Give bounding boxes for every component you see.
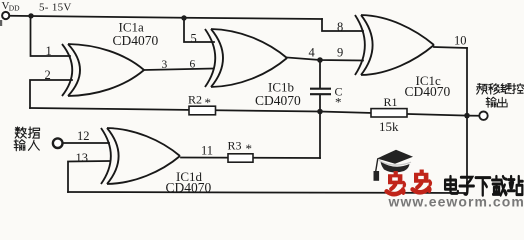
svg-text:CD4070: CD4070 (113, 33, 159, 48)
wire pin 4 to pin 9 (287, 58, 363, 61)
junction dot at Vdd/pin5 (181, 15, 186, 20)
svg-text:11: 11 (201, 144, 213, 158)
wire R2/R1 horizontal rail (30, 108, 467, 116)
terminal Vdd (2, 12, 9, 19)
XOR gate U1b (IC1b CD4070) (205, 29, 287, 87)
logo cap tassel (376, 159, 378, 173)
svg-text:1: 1 (46, 44, 52, 58)
resistor R1 (371, 109, 407, 117)
label FSK output (频移键控) (477, 84, 488, 95)
svg-text:12: 12 (77, 129, 90, 143)
wire top Vdd rail (9, 16, 322, 19)
terminal FSK output (479, 112, 487, 120)
logo cap base (381, 162, 410, 173)
svg-text:DD: DD (9, 3, 20, 12)
wire pin 12 from input terminal (63, 142, 110, 144)
svg-text:9: 9 (337, 46, 343, 60)
wire Vdd drop to pin 5 (184, 18, 214, 42)
resistor R3 (228, 154, 253, 162)
wire output terminal stub (467, 115, 479, 117)
svg-text:5: 5 (191, 32, 197, 46)
svg-text:R3: R3 (228, 139, 242, 153)
wire pin 13 (68, 161, 109, 192)
svg-text:CD4070: CD4070 (255, 93, 301, 108)
wire top rail step down to pin 8 (322, 19, 363, 31)
svg-text:*: * (335, 95, 342, 110)
svg-text:5- 15V: 5- 15V (39, 1, 72, 13)
terminal data input (53, 138, 63, 148)
svg-text:3: 3 (162, 59, 168, 71)
svg-text:www.eeworm.com: www.eeworm.com (388, 194, 524, 208)
wire Vdd drop to pin 1 (31, 16, 71, 56)
label data input (数据) (15, 127, 26, 138)
XOR gate U1a (IC1a CD4070) (62, 44, 144, 96)
wire pin 2 with drop to R2 rail (30, 80, 72, 108)
svg-text:R2: R2 (188, 93, 202, 107)
scan artifact left edge mark (0, 20, 2, 26)
wire bottom feedback (68, 192, 467, 193)
logo cap highlight stripe (379, 160, 411, 165)
svg-text:2: 2 (45, 68, 51, 82)
junction output node (464, 113, 470, 119)
svg-text:8: 8 (337, 20, 343, 34)
label data input (输入) (14, 140, 25, 151)
label FSK output (输出) (486, 97, 496, 107)
logo text 电子下载站 (445, 176, 458, 193)
svg-text:15k: 15k (379, 119, 399, 134)
wire node 4 down to capacitor (319, 60, 321, 88)
svg-text:R1: R1 (384, 95, 398, 109)
svg-text:6: 6 (190, 59, 196, 71)
wire output vertical (466, 48, 468, 193)
wire pin 11 through R3 to vertical (181, 157, 320, 160)
XOR gate U1c (IC1c CD4070) (355, 15, 434, 75)
svg-text:4: 4 (309, 46, 316, 60)
capacitor C plates (310, 89, 331, 95)
logo graduation cap board (377, 150, 413, 164)
svg-text:CD4070: CD4070 (405, 84, 451, 99)
svg-text:10: 10 (454, 34, 467, 48)
wire pin 3 to pin 6 (144, 69, 213, 71)
svg-text:*: * (205, 95, 212, 110)
wire capacitor to rail and down to R3 line (319, 96, 321, 159)
XOR gate U1d (IC1d CD4070) (101, 128, 180, 184)
junction node 4/9/C (317, 57, 323, 63)
junction dot at Vdd/pin1 (28, 13, 33, 18)
wire output pin 10 (434, 47, 467, 48)
svg-text:*: * (246, 141, 253, 156)
logo 虫 first (387, 171, 405, 194)
svg-text:CD4070: CD4070 (166, 180, 212, 195)
junction C/rail (317, 109, 323, 115)
svg-text:13: 13 (76, 151, 89, 165)
resistor R2 (189, 106, 216, 115)
logo 虫 second (413, 170, 431, 193)
